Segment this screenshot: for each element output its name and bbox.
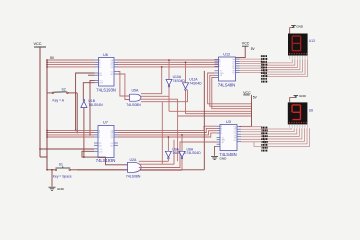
svg-text:VCC: VCC	[243, 91, 251, 95]
inverter U6A 74LS04D	[179, 147, 201, 159]
wire QA bus U7 to U3	[118, 126, 217, 130]
wire U10A output down	[168, 87, 170, 111]
wire S1 branch into U2A	[77, 169, 128, 171]
wire segment Og U3 to display U8	[241, 128, 307, 144]
svg-text:U12: U12	[223, 52, 230, 56]
wire crosser x177 down	[177, 116, 179, 161]
AND gate U5A 74LS08N	[126, 89, 141, 107]
wire U6 pin down to U5A input 2	[118, 74, 130, 100]
wire data bus A4 left of U6	[47, 66, 95, 68]
wire middle weave line 3	[141, 99, 178, 116]
node net-label column upper	[261, 55, 267, 82]
node net-label column lower	[261, 127, 267, 152]
wire S1 to U2A input / U12 loop	[77, 169, 204, 171]
wire data bus B3 left of U7	[47, 134, 94, 136]
svg-text:GND: GND	[296, 25, 304, 29]
wire segment Of U3 to display U8	[241, 128, 304, 141]
svg-text:74S04D: 74S04D	[173, 79, 186, 83]
wire data bus B2 left of U7	[47, 132, 94, 134]
svg-text:Key = Space: Key = Space	[53, 174, 72, 178]
wire weave line6 to terminus	[178, 115, 252, 117]
svg-text:74LS04N: 74LS04N	[88, 103, 103, 107]
wire QD bus U7 to U3	[118, 133, 217, 137]
wire QD bus U6 to U12	[118, 66, 219, 68]
svg-text:U7: U7	[103, 121, 108, 125]
wire U2A line2 up crossing	[139, 140, 174, 165]
svg-text:U8: U8	[309, 109, 313, 113]
wire segment Oa U12 to display U13	[240, 59, 293, 63]
wire U2A line1 to U9A output	[139, 160, 169, 162]
wire U5A line up to QD bus	[141, 67, 162, 94]
svg-text:U2A: U2A	[130, 158, 137, 162]
svg-text:74S04D: 74S04D	[189, 82, 202, 86]
ground GND U13	[290, 25, 304, 34]
inverter U9A 74LS04D	[165, 147, 186, 159]
wire segment Oe U3 to display U8	[241, 128, 302, 139]
wire QA bus U6 to U12	[118, 59, 219, 61]
wire U6A input from bus	[181, 135, 183, 151]
svg-text:~BI: ~BI	[219, 75, 222, 77]
wire load-data column	[46, 60, 48, 170]
wire U6 pin to lower bus via x90	[90, 80, 95, 134]
switch S2 Key=A	[48, 87, 77, 102]
wire data bus B4 left of U7	[47, 136, 94, 138]
svg-text:74LS193N: 74LS193N	[96, 87, 116, 92]
ground GND U3	[211, 147, 227, 161]
wire VCC feed line to U7	[40, 148, 94, 150]
svg-text:U6: U6	[103, 53, 108, 57]
display U8 seven-segment showing 9	[288, 102, 308, 127]
wire U6 load pin to inverter U1B output	[83, 83, 94, 99]
wire segment Ob U3 to display U8	[241, 128, 294, 131]
wire crosser x162	[161, 102, 163, 165]
svg-text:GND: GND	[57, 187, 65, 191]
counter U7 74LS193N	[94, 121, 118, 163]
wire U12 control pin 1 loop	[208, 73, 252, 104]
wire U6 pin to lower bus via x75.6	[76, 73, 95, 130]
wire segment Od U12 to display U13	[240, 59, 300, 69]
wire U12 control pin 2 loop	[210, 75, 252, 106]
wire segment Of U12 to display U13	[240, 59, 306, 74]
wire U5A output to inverter U10A column	[141, 95, 169, 97]
svg-text:S1: S1	[59, 162, 63, 166]
wire U6 pin stub	[88, 74, 95, 76]
wire segment Ob U12 to display U13	[240, 59, 295, 65]
wire segment Og U12 to display U13	[240, 59, 308, 76]
wire VCC rail to node column	[40, 156, 47, 158]
wire S2 right terminal down	[76, 93, 78, 133]
svg-text:Key = A: Key = A	[53, 99, 65, 103]
wire U9A output down	[167, 159, 169, 161]
svg-text:U5A: U5A	[132, 89, 139, 93]
wire U11A output down	[185, 91, 187, 114]
wire QC bus U7 to U3	[118, 131, 217, 135]
wire QB bus U6 to U12	[118, 61, 219, 63]
wire segment Oc U12 to display U13	[240, 59, 298, 67]
svg-text:74LS08N: 74LS08N	[126, 174, 141, 178]
inverter U10A 74S04D	[166, 75, 185, 87]
wire QC bus U6 to U12	[118, 64, 219, 66]
svg-text:GND: GND	[220, 156, 228, 160]
wire U2A output up to U3	[139, 142, 217, 168]
inverter U11A 74S04D	[183, 78, 203, 91]
wire segment dp U3 to display U8	[254, 128, 310, 146]
wire U10A line to terminus	[169, 110, 252, 112]
counter U6 74LS193N	[95, 53, 119, 93]
wire segment Oc U3 to display U8	[241, 128, 297, 134]
wire segment Od U3 to display U8	[241, 128, 299, 136]
wire segment Oe U12 to display U13	[240, 59, 303, 72]
svg-text:74LS08N: 74LS08N	[126, 103, 141, 107]
wire data bus A1 left of U6	[47, 59, 95, 61]
wire middle weave line 4	[141, 90, 188, 102]
wire QB bus U7 to U3	[118, 128, 217, 132]
inverter U1B 74LS04N	[81, 99, 103, 107]
wire S2 left to node column	[47, 92, 48, 94]
wire terminus vertical	[251, 95, 253, 127]
decoder U3 74LS48N	[217, 120, 241, 157]
wire U10A input from QA bus	[168, 60, 170, 80]
svg-text:U13: U13	[309, 39, 315, 43]
wire data bus A3 left of U6	[47, 64, 95, 66]
wire U1B input from below	[83, 108, 85, 158]
wire U9A input from bus	[167, 137, 169, 151]
wire data bus A2 left of U6	[47, 61, 95, 63]
svg-text:74LS48N: 74LS48N	[218, 82, 235, 87]
decoder U12 74LS48N	[215, 52, 240, 87]
wire U11A input from QB bus	[185, 62, 187, 83]
wire U11A line to terminus	[186, 113, 252, 115]
svg-text:VCC: VCC	[242, 42, 250, 46]
wire U2A line4 to U6A output	[139, 169, 182, 171]
svg-text:U3: U3	[226, 120, 231, 124]
svg-text:VCC: VCC	[34, 42, 42, 46]
wire segment Oa U3 to display U8	[241, 127, 292, 129]
wire VCC rail vertical	[39, 47, 41, 157]
switch S1 Key=Space	[47, 162, 77, 178]
svg-text:~BI: ~BI	[221, 142, 224, 144]
wire U6 pin down to U5A input 1	[118, 72, 130, 97]
wire data bus B1 left of U7	[47, 129, 94, 131]
wire U6A output down	[181, 159, 183, 170]
svg-text:74LS04D: 74LS04D	[187, 151, 202, 155]
svg-text:GND: GND	[299, 94, 307, 98]
svg-text:S2: S2	[62, 87, 66, 91]
wire U12 control pin 3 loop	[212, 78, 252, 109]
ground GND S1	[49, 169, 65, 191]
ground GND U8	[290, 94, 307, 102]
svg-text:5V: 5V	[50, 56, 55, 60]
wire VCC to U12	[236, 46, 245, 57]
wire long vertical x204	[203, 71, 205, 170]
display U13 seven-segment showing 8	[288, 34, 308, 59]
AND gate U2A 74LS08N	[126, 158, 141, 179]
wire U7 pin chain to U2A input	[82, 151, 128, 165]
